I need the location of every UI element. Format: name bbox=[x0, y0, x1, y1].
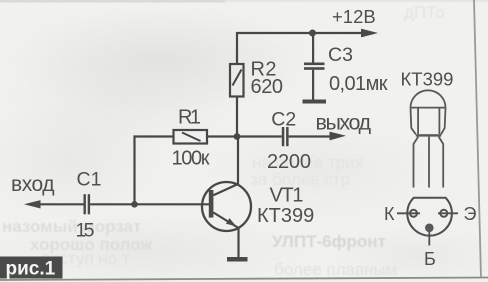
svg-text:R1: R1 bbox=[178, 107, 201, 129]
KT399 pinout (bottom view) bbox=[384, 198, 477, 269]
svg-text:620: 620 bbox=[251, 76, 284, 98]
svg-text:Б: Б bbox=[424, 249, 436, 269]
output arrow bbox=[330, 132, 347, 141]
wire: collector vertical bbox=[237, 137, 239, 185]
wire: +12V rail (R2 top to supply arrow) bbox=[237, 33, 363, 64]
svg-text:100к: 100к bbox=[172, 148, 210, 170]
power supply arrow +12V bbox=[361, 29, 378, 38]
input arrow bbox=[24, 200, 41, 208]
svg-text:выход: выход bbox=[316, 111, 372, 135]
wire: R1 to node / node to C2 bbox=[207, 135, 282, 137]
svg-text:C2: C2 bbox=[271, 109, 296, 131]
node: collector junction bbox=[234, 133, 241, 140]
wire: R1 branch (node to input line) bbox=[135, 137, 174, 205]
wire: input line to C1 bbox=[39, 203, 84, 205]
svg-text:назомый морзат: назомый морзат bbox=[2, 217, 141, 236]
node: base / input junction bbox=[131, 201, 138, 208]
pin Э leader bbox=[438, 212, 458, 214]
svg-text:2200: 2200 bbox=[267, 151, 311, 173]
wire: emitter vertical bbox=[237, 228, 239, 257]
svg-text:VT1: VT1 bbox=[270, 185, 304, 207]
pin Б leader bbox=[428, 232, 430, 246]
svg-text:вход: вход bbox=[11, 173, 55, 196]
svg-text:0,01мк: 0,01мк bbox=[329, 73, 388, 95]
resistor R2 bbox=[230, 64, 244, 97]
pin Б bbox=[425, 224, 434, 233]
svg-text:К: К bbox=[384, 204, 395, 224]
package lead К (left) bbox=[414, 137, 419, 188]
svg-text:Э: Э bbox=[464, 204, 477, 224]
svg-text:C1: C1 bbox=[77, 169, 102, 191]
pin К bbox=[410, 210, 417, 217]
pin Э bbox=[440, 210, 447, 217]
svg-text:КТ399: КТ399 bbox=[401, 69, 454, 90]
svg-text:КТ399: КТ399 bbox=[257, 205, 314, 227]
svg-text:более плавным: более плавным bbox=[274, 260, 397, 279]
figure label рис.1 bbox=[0, 257, 63, 280]
ground (below C3) bbox=[303, 100, 327, 104]
pinout body outline bbox=[407, 198, 452, 236]
pin К leader bbox=[397, 212, 420, 214]
capacitor C3 bbox=[304, 33, 325, 100]
svg-text:C3: C3 bbox=[328, 44, 353, 66]
resistor R1 bbox=[174, 130, 208, 144]
package body bbox=[411, 108, 446, 137]
svg-text:15: 15 bbox=[76, 220, 95, 242]
capacitor C2 bbox=[282, 127, 289, 146]
svg-text:рис.1: рис.1 bbox=[6, 259, 56, 280]
svg-text:+12В: +12В bbox=[332, 6, 376, 27]
schematic text labels bbox=[11, 6, 388, 242]
wire: C2 to output arrow bbox=[289, 135, 332, 137]
transistor VT1 bbox=[202, 182, 251, 231]
ground (emitter) bbox=[227, 257, 248, 262]
svg-text:дПТо: дПТо bbox=[404, 3, 445, 22]
package lead Б (center) bbox=[428, 137, 430, 188]
node: supply / C3 junction bbox=[309, 30, 316, 37]
package dome bbox=[411, 90, 446, 107]
svg-text:УЛПТ-6фронт: УЛПТ-6фронт bbox=[272, 232, 386, 251]
package lead Э (right) bbox=[439, 137, 444, 188]
wire: C1 to transistor base bbox=[90, 203, 209, 205]
wire: R2 bottom to collector node bbox=[236, 97, 238, 137]
capacitor C1 bbox=[84, 194, 91, 214]
KT399 package drawing bbox=[401, 69, 454, 188]
